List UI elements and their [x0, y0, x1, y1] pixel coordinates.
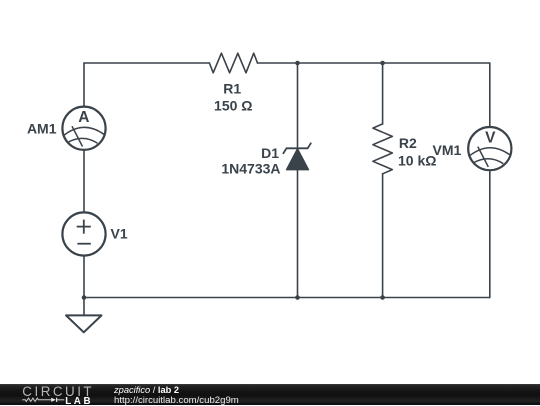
wire R2 branch bottom	[382, 174, 384, 298]
logo mini diode	[51, 398, 56, 402]
wire top middle	[258, 62, 490, 64]
voltmeter VM1	[468, 127, 511, 170]
wire top-left vertical to AM1	[83, 63, 85, 107]
svg-text:R1: R1	[223, 81, 241, 97]
wire V1 to bottom	[83, 256, 85, 298]
CircuitLab logo	[0, 384, 100, 405]
footer title line	[114, 385, 179, 395]
ammeter AM1	[62, 107, 105, 150]
voltage source V1	[62, 212, 105, 255]
wire AM1 to V1	[83, 150, 85, 213]
wire bottom horizontal	[84, 297, 490, 299]
zener diode D1	[283, 143, 311, 169]
svg-text:R2: R2	[399, 135, 417, 151]
junction dot bottom R2	[380, 295, 385, 300]
logo mini resistor	[22, 398, 51, 401]
wire top-left horizontal	[84, 62, 209, 64]
svg-text:D1: D1	[261, 145, 279, 161]
svg-text:AM1: AM1	[27, 121, 57, 137]
footer bar	[0, 384, 540, 405]
junction dot ground	[82, 295, 87, 300]
junction dot bottom D1	[295, 295, 300, 300]
footer url line	[114, 395, 239, 406]
wire D1 branch vertical	[297, 63, 299, 298]
svg-text:LAB: LAB	[65, 396, 93, 405]
junction dot top D1	[295, 61, 300, 66]
svg-text:A: A	[78, 109, 89, 126]
svg-text:1N4733A: 1N4733A	[221, 161, 280, 177]
svg-text:V1: V1	[111, 226, 128, 242]
svg-text:10 kΩ: 10 kΩ	[398, 153, 436, 169]
resistor R1 zigzag	[209, 53, 257, 73]
wire right vertical VM1 to bottom	[489, 170, 491, 297]
wire R2 branch top	[382, 63, 384, 124]
resistor R2 zigzag	[373, 124, 392, 174]
junction dot top R2	[380, 61, 385, 66]
svg-text:150 Ω: 150 Ω	[214, 97, 252, 113]
wire right vertical top to VM1	[489, 63, 491, 127]
ground	[66, 298, 102, 333]
svg-text:VM1: VM1	[433, 142, 462, 158]
svg-text:V: V	[485, 130, 496, 147]
